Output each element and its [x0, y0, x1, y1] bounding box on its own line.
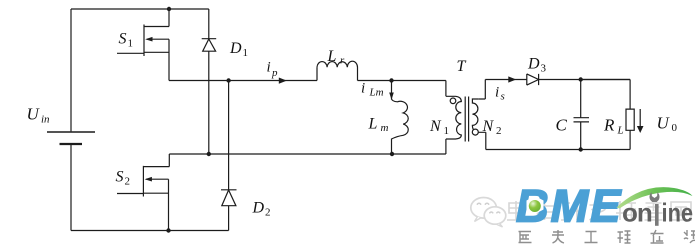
node dot Lm bottom	[390, 152, 394, 156]
node dot C top	[579, 77, 583, 81]
wire left rail lower	[70, 145, 72, 231]
resistor RL box	[581, 80, 635, 150]
wire node B	[169, 153, 446, 155]
logo wrench	[649, 192, 659, 226]
polarity dot N1	[450, 98, 456, 104]
svg-text:C: C	[556, 116, 568, 135]
svg-text:T: T	[457, 58, 467, 75]
svg-text:1: 1	[444, 125, 450, 137]
transformer winding N2	[472, 99, 478, 131]
svg-text:1: 1	[128, 38, 134, 50]
node dot B / D1	[207, 152, 211, 156]
arrow U0 head	[637, 126, 644, 133]
bottom chinese row	[519, 230, 695, 243]
svg-text:i: i	[361, 81, 365, 97]
svg-text:N: N	[482, 118, 495, 135]
svg-text:s: s	[501, 91, 505, 103]
node dot top rail / S1 drain	[167, 7, 171, 11]
transformer core	[465, 97, 468, 142]
transistor S1	[117, 9, 169, 81]
battery Uin short plate	[60, 143, 83, 145]
node dot C bottom	[579, 147, 583, 151]
svg-text:2: 2	[125, 176, 131, 188]
polarity dot N2	[472, 129, 478, 135]
arrow ip	[279, 78, 287, 84]
diode D3	[527, 74, 539, 85]
wire top rail	[71, 8, 209, 10]
wire secondary bottom	[486, 149, 630, 151]
svg-text:L: L	[327, 48, 337, 65]
wire node A (midpoint)	[169, 80, 446, 82]
node dot bottom rail / S2 source	[166, 228, 170, 232]
diode D2	[221, 81, 237, 231]
svg-text:0: 0	[672, 122, 678, 134]
svg-text:m: m	[381, 122, 389, 134]
node dot A / D2	[226, 78, 230, 82]
svg-text:r: r	[340, 55, 345, 67]
logo swoosh	[617, 187, 693, 208]
inductor Lm with iLm arrow wire	[392, 81, 409, 155]
capacitor C	[574, 80, 590, 150]
logo green ball in B	[527, 196, 544, 214]
svg-text:i: i	[495, 85, 499, 101]
node dot Lm top	[389, 78, 393, 82]
transistor S2 body arrow	[145, 177, 152, 182]
battery Uin long plate	[47, 131, 95, 133]
diode D1	[202, 9, 217, 154]
wire bottom rail	[71, 230, 229, 232]
svg-text:D: D	[229, 40, 242, 57]
svg-text:S: S	[119, 31, 127, 48]
transistor S1 body arrow	[145, 37, 152, 42]
svg-text:on: on	[622, 198, 652, 228]
svg-text:Lm: Lm	[369, 87, 384, 99]
svg-text:R: R	[603, 116, 615, 135]
svg-text:D: D	[252, 200, 265, 217]
transformer primary loop wires	[446, 81, 456, 155]
transformer secondary loop wires	[478, 80, 486, 150]
arrow U0	[639, 109, 641, 127]
svg-text:2: 2	[265, 207, 271, 219]
svg-text:p: p	[271, 67, 278, 79]
svg-text:3: 3	[541, 63, 547, 75]
arrow is	[508, 76, 516, 82]
svg-text:in: in	[41, 114, 50, 126]
svg-text:D: D	[527, 56, 540, 73]
svg-text:1: 1	[243, 47, 249, 59]
svg-text:U: U	[27, 105, 41, 124]
svg-text:L: L	[617, 125, 624, 137]
wechat icon	[471, 198, 506, 228]
svg-text:ine: ine	[662, 199, 694, 228]
transformer winding N1	[456, 96, 462, 139]
svg-text:U: U	[657, 114, 671, 133]
svg-text:i: i	[267, 60, 271, 76]
svg-text:2: 2	[496, 125, 502, 137]
svg-text:L: L	[368, 116, 378, 133]
svg-text:N: N	[429, 118, 442, 135]
iLm arrowhead	[389, 93, 394, 100]
inductor Lr	[317, 61, 358, 80]
wire secondary top	[485, 79, 630, 81]
svg-text:S: S	[116, 169, 124, 186]
watermark chinese row (light)	[507, 201, 691, 220]
wire left rail upper	[70, 9, 72, 131]
transistor S2	[117, 154, 169, 231]
